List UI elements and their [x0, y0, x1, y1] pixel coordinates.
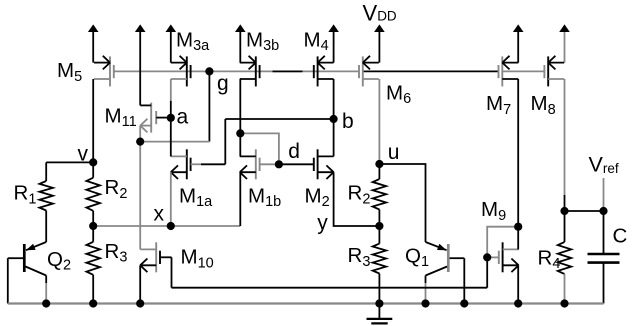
svg-text:M4: M4 — [304, 28, 329, 54]
resistor R4 — [558, 242, 572, 274]
wire M6 drain to node u — [378, 79, 380, 164]
junction rail Q2 collector — [42, 299, 50, 307]
junction rail M9 source — [514, 299, 522, 307]
wire Q2 base to ground rail — [7, 258, 9, 303]
label node y — [317, 211, 328, 234]
wire ground rail — [8, 302, 604, 304]
transistor Q1 — [426, 242, 465, 304]
wire node g to M11 source — [140, 141, 209, 143]
junction M9 gate — [483, 253, 491, 261]
svg-text:b: b — [342, 110, 354, 133]
transistor M10 — [140, 242, 160, 272]
label Vref — [589, 153, 619, 177]
label M3b — [246, 28, 279, 54]
wire R2 bottom lead to node x — [92, 211, 94, 226]
svg-text:u: u — [388, 141, 400, 164]
label R1 — [14, 182, 37, 208]
power VDD arrow for M7 — [513, 24, 524, 62]
label M1b — [248, 184, 281, 210]
svg-text:M6: M6 — [386, 81, 411, 107]
wire M1a gate lead — [201, 163, 225, 165]
wire R2 right top lead — [378, 164, 380, 179]
label node x — [154, 203, 165, 226]
wire R3 right bottom lead to ground — [378, 274, 380, 304]
wire node v to R1 — [46, 161, 93, 163]
wire R3 right top lead — [378, 226, 380, 244]
svg-text:M3b: M3b — [246, 28, 279, 54]
wire node u to Q1 emitter — [379, 164, 425, 242]
label M6 — [386, 81, 411, 107]
transistor M7 — [499, 56, 519, 87]
junction M7/M9 drains — [514, 223, 522, 231]
wire riser to M9 gate — [486, 257, 488, 287]
wire M8 drain drop (lower) — [564, 195, 566, 211]
wire M10 gate drop — [171, 257, 173, 287]
svg-text:y: y — [317, 211, 328, 234]
wire node b horizontal — [225, 118, 333, 120]
label R4 — [538, 246, 561, 272]
node a junction — [167, 114, 175, 122]
transistor M3b — [240, 56, 260, 87]
label node d — [288, 140, 300, 163]
wire R2 right bottom lead to node y — [378, 210, 380, 227]
label node a — [177, 106, 189, 129]
junction rail Q1 base — [460, 299, 468, 307]
node x junction — [167, 222, 175, 230]
label M7 — [486, 92, 511, 118]
wire M1b gate stub — [260, 163, 279, 165]
wire M4 drain to node b — [333, 79, 335, 119]
svg-text:x: x — [154, 203, 165, 226]
wire node x horizontal — [93, 225, 240, 227]
label node g — [217, 72, 229, 95]
wire node d to M2 gate — [279, 163, 314, 165]
wire M5 drain to node v — [92, 79, 94, 162]
power VDD arrow for M6 — [374, 24, 385, 62]
transistor Q2 — [8, 242, 46, 304]
svg-text:M11: M11 — [105, 104, 137, 130]
wire M9 source to rail — [517, 265, 519, 303]
wire M3a drain drop (gray part) — [170, 79, 172, 101]
wire R3 bottom lead to rail — [92, 275, 94, 304]
wire M8 drain drop (upper) — [564, 79, 566, 195]
transistor M9 — [499, 242, 519, 272]
label C — [613, 225, 628, 248]
power VDD arrow for M3a — [166, 24, 177, 62]
junction rail R4 — [560, 299, 568, 307]
transistor M3a — [171, 56, 191, 87]
svg-text:Vref: Vref — [589, 153, 619, 177]
wire node g drop — [208, 71, 210, 141]
power VDD arrow for M3b — [235, 24, 246, 62]
junction M11 source / node g — [136, 138, 144, 146]
label node b — [342, 110, 354, 133]
wire M10 source to rail — [139, 265, 141, 303]
label M2 — [305, 184, 330, 210]
power VDD arrow for M8 — [559, 24, 570, 62]
transistor M11 — [140, 103, 171, 133]
wire C bottom lead to rail — [603, 263, 605, 304]
label M1a — [179, 184, 213, 210]
wire M1b drain riser — [239, 133, 241, 156]
label M5 — [57, 59, 82, 85]
label R3 left — [105, 240, 128, 266]
svg-text:v: v — [78, 142, 89, 165]
junction M3b/M1b drains — [236, 129, 244, 137]
transistor M2 — [314, 149, 334, 179]
wire Q1 base to ground rail — [463, 258, 465, 303]
svg-text:d: d — [288, 140, 300, 163]
svg-text:a: a — [177, 106, 189, 129]
node g junction — [205, 67, 213, 75]
svg-text:M1a: M1a — [179, 184, 213, 210]
transistor M4 — [314, 56, 334, 87]
svg-text:R4: R4 — [538, 246, 561, 272]
node b junction — [330, 115, 338, 123]
junction rail R3 left — [89, 299, 97, 307]
resistor R2 (left) — [86, 178, 100, 211]
label M9 — [481, 198, 506, 224]
wire M2 source to node y — [334, 172, 380, 226]
svg-text:M10: M10 — [181, 246, 214, 272]
label R2 right — [348, 182, 371, 208]
label node v — [78, 142, 89, 165]
transistor M5 — [94, 56, 114, 87]
power VDD arrow for M11 — [135, 24, 146, 105]
wire gate bus segment (M3b to M4) — [273, 70, 303, 72]
wire gate bus segment (M5 gate to M6 gate) — [114, 70, 359, 72]
svg-text:R3: R3 — [105, 240, 128, 266]
wire M3b drain drop — [239, 79, 241, 133]
label Q1 — [405, 244, 429, 270]
label VDD — [363, 0, 397, 25]
transistor M8 — [544, 56, 564, 87]
wire M7 drain drop — [517, 79, 519, 227]
svg-text:M7: M7 — [486, 92, 511, 118]
label M3a — [176, 28, 210, 54]
wire M1a source to node x — [170, 172, 172, 226]
wire R4 bottom lead to rail — [564, 274, 566, 304]
wire M9 gate to M7 drain — [487, 227, 518, 258]
svg-text:C: C — [613, 225, 628, 248]
wire M8 drain to Vref node — [565, 210, 604, 212]
resistor R1 — [39, 181, 53, 211]
wire M7 drain to M9 drain — [517, 227, 519, 250]
svg-text:Q2: Q2 — [47, 248, 71, 274]
junction rail ground — [375, 299, 383, 307]
wire Vref lead — [603, 178, 605, 211]
svg-text:g: g — [217, 72, 229, 95]
transistor M1b — [240, 149, 260, 179]
junction rail Q1 collector — [421, 299, 429, 307]
wire junction to node d — [240, 133, 279, 164]
transistor M1a — [171, 149, 191, 179]
svg-text:R2: R2 — [348, 182, 371, 208]
wire M1b source to node x — [239, 172, 241, 226]
junction rail M10 source — [136, 299, 144, 307]
svg-text:R1: R1 — [14, 182, 37, 208]
resistor R3 (right) — [373, 244, 387, 274]
label node u — [388, 141, 400, 164]
resistor R2 (right) — [373, 179, 387, 209]
label M8 — [531, 92, 556, 118]
wire M10 gate to M9 gate — [172, 287, 488, 289]
wire R3 top lead — [92, 226, 94, 242]
wire R1 bottom lead to Q2 emitter — [45, 211, 47, 243]
wire M9 gate lead — [487, 256, 499, 258]
wire node a (M3a drain to M1a drain) — [170, 101, 172, 157]
svg-text:M2: M2 — [305, 184, 330, 210]
wire R2 top lead from node v — [92, 162, 94, 177]
node u junction — [375, 160, 383, 168]
wire M1a gate lead stub — [191, 163, 201, 165]
svg-text:M5: M5 — [57, 59, 82, 85]
node v junction — [89, 158, 97, 166]
label M11 — [105, 104, 137, 130]
ground symbol — [367, 304, 393, 324]
node y junction — [375, 222, 383, 230]
wire M1a gate riser to node b — [224, 119, 226, 164]
svg-text:M3a: M3a — [176, 28, 210, 54]
svg-text:M9: M9 — [481, 198, 506, 224]
resistor R3 (left) — [86, 242, 100, 275]
wire C top lead — [603, 211, 605, 254]
label R2 left — [105, 176, 128, 202]
power VDD arrow for M4 — [328, 24, 339, 62]
wire M11 source / M10 drain riser — [139, 126, 141, 250]
label R3 right — [348, 244, 371, 270]
wire gate bus segment (M6 to M7 gate) — [363, 70, 499, 72]
capacitor C — [588, 254, 620, 263]
svg-text:Q1: Q1 — [405, 244, 429, 270]
junction Vref / C — [599, 207, 607, 215]
svg-text:M1b: M1b — [248, 184, 281, 210]
wire M10 gate lead — [160, 256, 171, 258]
transistor M6 — [359, 56, 379, 87]
svg-text:VDD: VDD — [363, 0, 397, 25]
wire R4 top lead — [564, 211, 566, 242]
svg-text:M8: M8 — [531, 92, 556, 118]
power VDD arrow for M5 — [88, 24, 99, 62]
svg-text:R2: R2 — [105, 176, 128, 202]
junction M8 drain / R4 — [560, 207, 568, 215]
label M4 — [304, 28, 329, 54]
wire gate bus segment (M7 to M8 gate) — [502, 70, 544, 72]
wire R1 top lead — [45, 162, 47, 181]
label M10 — [181, 246, 214, 272]
junction R2/R3 left — [89, 222, 97, 230]
label Q2 — [47, 248, 71, 274]
wire node b to M2 drain — [333, 119, 335, 156]
svg-text:R3: R3 — [348, 244, 371, 270]
node d junction — [275, 160, 283, 168]
